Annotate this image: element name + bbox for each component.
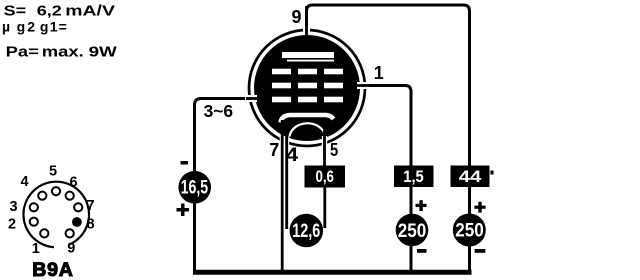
lead wire pin5 down [323, 130, 326, 167]
anode supply 250 [453, 214, 486, 247]
svg-text:6: 6 [69, 174, 77, 190]
base pin 5 [52, 187, 60, 195]
tube V1 envelope outer circle [249, 30, 365, 146]
B9A base outline circle with index gap [23, 182, 89, 248]
lead wire pin4 down [285, 130, 288, 229]
svg-text:9: 9 [292, 7, 302, 27]
svg-text:44: 44 [459, 168, 483, 186]
svg-text:5: 5 [49, 164, 57, 180]
svg-text:4: 4 [286, 145, 299, 166]
tube V1 inner black disk [254, 35, 360, 141]
lead halo pin9 [303, 26, 310, 35]
heater filament dome [290, 123, 326, 136]
base pin 7 [74, 203, 82, 211]
grid g3 dashed row [272, 69, 343, 75]
svg-text:2: 2 [8, 216, 16, 232]
base pin 9 [66, 229, 74, 237]
svg-text:4: 4 [20, 174, 28, 190]
box screen current 1,5 [394, 166, 434, 188]
lead wire pin7 cathode down [281, 120, 284, 272]
lead halo grid left [245, 95, 257, 102]
svg-text:mA/V: mA/V [65, 2, 115, 19]
wire 0,6 box to 12,6 circle [323, 186, 326, 228]
lead pin1 [352, 84, 370, 87]
lead halo pin7 [280, 137, 285, 147]
minus sign anode supply [475, 249, 486, 253]
svg-text:250: 250 [398, 221, 427, 242]
grid g2 dashed row [272, 83, 343, 89]
battery plus sign [177, 208, 190, 212]
wire bottom rail [193, 270, 472, 275]
svg-text:1: 1 [374, 63, 384, 83]
svg-text:B9A: B9A [32, 259, 73, 280]
svg-text:1: 1 [32, 241, 40, 257]
svg-text:7: 7 [86, 198, 94, 214]
lead halo pin5 [322, 136, 327, 147]
anode bar [282, 52, 334, 58]
grid g1 dashed row [272, 97, 343, 103]
box anode current 44 [451, 166, 490, 188]
svg-text:5: 5 [330, 140, 338, 160]
svg-text:9: 9 [67, 241, 75, 257]
scan speck [491, 171, 494, 175]
base pin 4 [38, 192, 46, 200]
plus sign anode supply [474, 206, 485, 209]
svg-text:3~6: 3~6 [204, 101, 234, 121]
wire grid 3~6 left branch [195, 99, 263, 271]
minus sign screen supply [417, 249, 427, 253]
svg-text:Pa=: Pa= [6, 43, 39, 60]
base pin 6 [66, 192, 74, 200]
svg-text:250: 250 [455, 221, 484, 242]
svg-text:1,5: 1,5 [403, 168, 424, 186]
base pin 1 [40, 229, 48, 237]
wire top rail pin9 to right branch [307, 5, 470, 270]
lead grid left [246, 97, 262, 100]
screen supply 250 [396, 214, 429, 247]
battery Vg 16,5 [178, 171, 211, 204]
svg-text:12,6: 12,6 [292, 221, 320, 242]
svg-text:max.: max. [42, 43, 84, 60]
svg-text:0,6: 0,6 [315, 168, 334, 186]
label S = 6,2 mA/V [4, 2, 115, 19]
wire pin1 to right middle branch [352, 86, 411, 271]
lead pin9 [305, 6, 308, 40]
svg-text:3: 3 [9, 199, 17, 215]
plus sign screen supply [416, 204, 427, 207]
svg-text:S=: S= [4, 2, 27, 19]
box heater current 0,6 [305, 166, 346, 188]
base pin 2 [30, 218, 38, 226]
svg-text:6,2: 6,2 [37, 2, 62, 19]
anode thin line [287, 60, 334, 62]
cathode [281, 115, 334, 123]
base pin 8 filled [72, 217, 82, 227]
base pin 3 [30, 203, 38, 211]
svg-text:7: 7 [269, 140, 279, 160]
heater supply 12,6 [290, 214, 324, 248]
lead halo pin4 [284, 137, 289, 148]
svg-text:8: 8 [86, 217, 94, 233]
svg-text:16,5: 16,5 [181, 178, 209, 199]
svg-text:µg2g1=: µg2g1= [2, 19, 67, 35]
lead halo pin1 right [357, 82, 369, 89]
battery minus sign [181, 161, 189, 165]
label Pa = max. 9W [6, 43, 118, 60]
svg-text:9W: 9W [89, 43, 118, 60]
